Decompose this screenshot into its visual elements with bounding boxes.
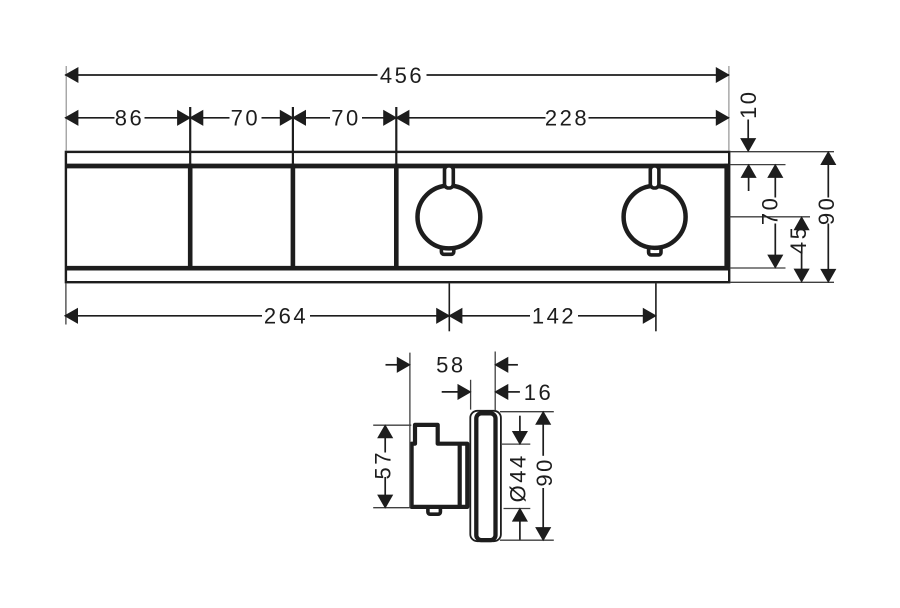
dimension 90 side view (536, 412, 550, 541)
knob 1 stem slot (445, 166, 454, 188)
knob 2 circle (624, 186, 686, 248)
dimension 45 right (794, 217, 808, 282)
extension line divider 2 (292, 107, 294, 164)
svg-text:264: 264 (264, 304, 308, 329)
extension line recess top right (730, 164, 786, 166)
dimension diameter 44 (513, 416, 527, 540)
svg-text:456: 456 (380, 63, 424, 88)
svg-text:58: 58 (436, 353, 465, 378)
svg-text:10: 10 (736, 89, 761, 118)
svg-text:86: 86 (115, 106, 144, 131)
extension line recess bottom right (730, 267, 786, 269)
extension line left edge top (65, 66, 67, 151)
extension line plate bottom right side view (500, 539, 554, 541)
extension line divider 3 (395, 107, 397, 164)
extension line left edge bottom (65, 283, 67, 324)
svg-text:45: 45 (786, 225, 811, 254)
dimension 16 (442, 385, 520, 399)
dimension 58 (386, 358, 518, 372)
dimension 10 vertical (741, 120, 756, 192)
extension line knob 2 centre (655, 283, 657, 331)
svg-text:70: 70 (757, 196, 782, 225)
side view handle outline (412, 425, 468, 507)
svg-text:70: 70 (231, 106, 260, 131)
knob 2 stem slot (650, 166, 659, 188)
extension line plate bottom right (730, 281, 834, 283)
plate inner recess right edge (724, 164, 728, 271)
extension line knob top side view (502, 443, 530, 445)
extension line knob 1 centre (448, 283, 450, 331)
svg-text:142: 142 (532, 304, 576, 329)
side view escutcheon outer outline (470, 411, 501, 541)
dimension 70 second (293, 111, 396, 125)
module divider 3 (394, 164, 399, 271)
plate inner recess top line (65, 164, 728, 169)
side view escutcheon inner outline (476, 413, 495, 540)
plate inner recess bottom line (65, 266, 728, 271)
module divider 1 (188, 164, 193, 271)
dimension 142 (449, 309, 656, 323)
extension line knob bottom side view (504, 508, 531, 510)
dimension 90 right (821, 152, 835, 282)
svg-text:16: 16 (524, 380, 553, 405)
extension line 16 left vertical (470, 380, 472, 410)
dimension 86 (65, 111, 190, 125)
svg-text:Ø44: Ø44 (506, 453, 531, 502)
side view handle index tab (428, 505, 441, 514)
svg-text:228: 228 (545, 106, 589, 131)
extension line 58 left vertical (409, 353, 411, 508)
dimension 264 (65, 309, 449, 323)
dimension 57 (378, 425, 392, 508)
knob 1 circle (418, 186, 481, 249)
knob 1 index tab (441, 246, 453, 254)
extension line divider 1 (189, 107, 191, 164)
extension line right edge top (728, 66, 730, 151)
module divider 2 (291, 164, 296, 271)
svg-text:70: 70 (331, 106, 360, 131)
trim plate outer rectangle (front view) (66, 152, 729, 282)
svg-text:57: 57 (370, 450, 395, 479)
dimension 228 (396, 111, 729, 125)
side view handle back face line (458, 444, 462, 507)
extension line 57 bottom horizontal (373, 507, 410, 509)
knob 2 index tab (649, 246, 661, 255)
dimension 456 (65, 68, 729, 82)
extension line knob centre right (730, 216, 810, 218)
extension line plate top right (730, 151, 834, 153)
extension line 57 top horizontal (373, 424, 411, 426)
svg-text:90: 90 (814, 196, 839, 225)
extension line 58 right vertical (494, 352, 496, 411)
dimension 70 right (768, 165, 782, 268)
svg-text:90: 90 (532, 457, 557, 486)
dimension 70 first (190, 111, 293, 125)
extension line plate top right side view (500, 411, 554, 413)
